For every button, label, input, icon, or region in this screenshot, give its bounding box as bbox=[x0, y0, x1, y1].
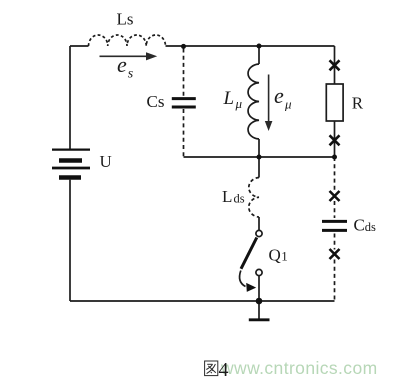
svg-text:s: s bbox=[128, 67, 134, 82]
svg-text:e: e bbox=[117, 52, 127, 77]
inductor Lds bbox=[249, 178, 259, 218]
wire middle horizontal bbox=[184, 156, 335, 158]
svg-text:1: 1 bbox=[281, 249, 288, 264]
wire R branch lower bbox=[334, 121, 336, 157]
svg-text:ds: ds bbox=[365, 220, 376, 234]
wire left vertical upper bbox=[69, 46, 71, 149]
arrow e_s bbox=[100, 55, 148, 57]
wire top-left horizontal bbox=[70, 45, 89, 47]
svg-text:www.cntronics.com: www.cntronics.com bbox=[220, 358, 378, 378]
switch Q1 motion arrow bbox=[240, 271, 246, 287]
node at Lmu top bbox=[257, 44, 262, 49]
node at Lmu bottom bbox=[257, 155, 262, 160]
svg-text:U: U bbox=[100, 152, 112, 171]
wire Cds dashed 2 bbox=[334, 201, 336, 218]
wire R branch upper bbox=[334, 46, 336, 84]
svg-text:L: L bbox=[223, 88, 235, 109]
resistor R bbox=[326, 84, 343, 121]
wire Lds top bbox=[258, 157, 260, 178]
switch Q1 top contact bbox=[256, 230, 262, 236]
caption glyph tu (figure) bbox=[205, 361, 218, 376]
node at Ls/Cs junction bbox=[181, 44, 186, 49]
breaker X top of R bbox=[330, 60, 340, 70]
inductor Ls bbox=[89, 35, 166, 46]
svg-text:Q: Q bbox=[269, 246, 281, 265]
svg-text:Cs: Cs bbox=[147, 92, 165, 111]
breaker X bottom of R bbox=[330, 135, 340, 145]
inductor Lmu bbox=[248, 64, 259, 139]
node at R bottom bbox=[332, 155, 337, 160]
node at ground junction bbox=[256, 298, 263, 305]
svg-text:L: L bbox=[222, 187, 232, 206]
wire bottom horizontal bbox=[70, 300, 335, 302]
capacitor Cs bbox=[172, 99, 196, 107]
wire Cs dashed lower bbox=[183, 109, 185, 157]
svg-text:4: 4 bbox=[219, 359, 229, 381]
wire left vertical lower bbox=[69, 180, 71, 301]
svg-text:R: R bbox=[352, 93, 364, 112]
ground bbox=[258, 301, 260, 319]
wire Cds dashed 1 bbox=[334, 157, 336, 191]
wire Cds dashed 4 bbox=[334, 260, 336, 302]
switch Q1 blade bbox=[241, 238, 257, 269]
wire top horizontal bbox=[166, 45, 335, 47]
svg-text:μ: μ bbox=[235, 96, 243, 111]
svg-text:ds: ds bbox=[234, 192, 245, 206]
wire Lds to switch bbox=[258, 217, 260, 230]
wire Lmu bottom bbox=[258, 139, 260, 157]
breaker X upper Cds bbox=[330, 191, 340, 201]
svg-text:μ: μ bbox=[284, 97, 292, 112]
battery U bbox=[52, 150, 90, 178]
wire Cs dashed upper bbox=[183, 49, 185, 97]
wire Lmu top bbox=[258, 46, 260, 64]
svg-text:e: e bbox=[274, 83, 284, 108]
wire switch to bottom bbox=[258, 276, 260, 301]
svg-text:Ls: Ls bbox=[117, 10, 134, 29]
svg-text:C: C bbox=[354, 215, 365, 234]
capacitor Cds bbox=[322, 221, 347, 230]
wire Cds dashed 3 bbox=[334, 234, 336, 250]
switch Q1 bottom contact bbox=[256, 269, 262, 275]
breaker X lower Cds bbox=[330, 249, 340, 259]
arrow e_mu bbox=[268, 75, 270, 123]
